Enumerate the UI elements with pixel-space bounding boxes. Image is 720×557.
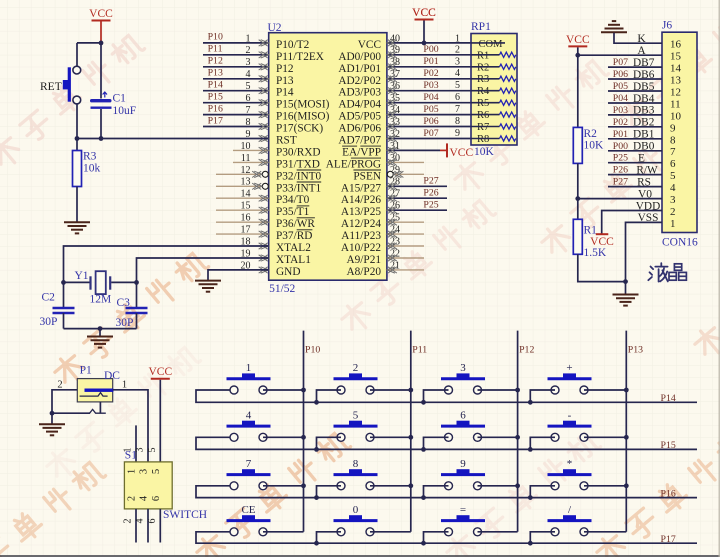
svg-text:10K: 10K xyxy=(584,140,605,152)
svg-text:DB4: DB4 xyxy=(633,93,655,105)
svg-text:2: 2 xyxy=(455,44,460,55)
svg-text:R2: R2 xyxy=(584,128,598,140)
svg-text:E: E xyxy=(638,153,645,165)
svg-text:P12: P12 xyxy=(519,345,534,356)
svg-text:P13: P13 xyxy=(628,345,643,356)
svg-text:+: + xyxy=(566,362,572,374)
svg-text:16: 16 xyxy=(670,39,682,51)
svg-text:AD4/P04: AD4/P04 xyxy=(338,99,381,111)
svg-text:2: 2 xyxy=(57,380,62,391)
svg-text:AD7/P07: AD7/P07 xyxy=(338,135,381,147)
svg-text:P31/TXD: P31/TXD xyxy=(276,158,320,170)
svg-text:R3: R3 xyxy=(477,74,489,85)
svg-text:A11/P23: A11/P23 xyxy=(341,230,381,242)
svg-text:A12/P24: A12/P24 xyxy=(341,218,382,230)
svg-text:R1: R1 xyxy=(477,50,489,61)
svg-text:P25: P25 xyxy=(423,200,438,211)
svg-text:C3: C3 xyxy=(117,297,131,309)
svg-text:4: 4 xyxy=(139,495,150,501)
svg-text:10k: 10k xyxy=(83,163,101,175)
svg-text:P37/RD: P37/RD xyxy=(276,230,312,242)
svg-text:P06: P06 xyxy=(423,116,438,127)
svg-text:XTAL1: XTAL1 xyxy=(276,254,311,266)
svg-text:C2: C2 xyxy=(42,292,56,304)
svg-text:3: 3 xyxy=(670,194,676,206)
svg-text:P16: P16 xyxy=(208,103,223,114)
svg-text:P26: P26 xyxy=(423,188,438,199)
svg-text:P17: P17 xyxy=(661,534,676,545)
svg-text:12M: 12M xyxy=(90,294,112,306)
svg-text:SWITCH: SWITCH xyxy=(163,509,207,521)
svg-text:-: - xyxy=(568,409,572,421)
svg-text:9: 9 xyxy=(670,122,676,134)
svg-text:P10/T2: P10/T2 xyxy=(276,39,310,51)
svg-text:9: 9 xyxy=(455,128,460,139)
svg-text:AD6/P06: AD6/P06 xyxy=(338,123,381,135)
svg-text:C1: C1 xyxy=(113,93,127,105)
svg-text:P04: P04 xyxy=(423,92,438,103)
svg-text:P26: P26 xyxy=(613,165,628,176)
svg-text:P27: P27 xyxy=(423,176,438,187)
svg-text:V0: V0 xyxy=(638,188,652,200)
svg-text:P30/RXD: P30/RXD xyxy=(276,146,321,158)
svg-text:5: 5 xyxy=(670,170,676,182)
svg-text:A: A xyxy=(637,45,646,57)
svg-text:1: 1 xyxy=(455,33,460,44)
svg-text:P01: P01 xyxy=(423,56,438,67)
svg-text:R5: R5 xyxy=(477,98,489,109)
svg-text:VCC: VCC xyxy=(450,147,474,159)
svg-text:AD5/P05: AD5/P05 xyxy=(338,111,381,123)
svg-text:P02: P02 xyxy=(423,68,438,79)
svg-text:4: 4 xyxy=(455,68,460,79)
svg-text:15: 15 xyxy=(670,51,682,63)
svg-text:1: 1 xyxy=(670,218,676,230)
svg-text:14: 14 xyxy=(670,63,682,75)
svg-text:1.5K: 1.5K xyxy=(584,247,607,259)
svg-text:=: = xyxy=(460,504,466,516)
svg-text:3: 3 xyxy=(460,362,466,374)
svg-text:VCC: VCC xyxy=(358,39,381,51)
svg-text:2: 2 xyxy=(670,206,676,218)
svg-text:6: 6 xyxy=(460,409,466,421)
svg-text:5: 5 xyxy=(147,448,158,453)
svg-text:8: 8 xyxy=(455,116,460,127)
svg-text:P07: P07 xyxy=(423,128,438,139)
svg-text:1: 1 xyxy=(246,362,252,374)
svg-text:P14: P14 xyxy=(276,87,294,99)
svg-text:DB6: DB6 xyxy=(633,69,655,81)
svg-text:P10: P10 xyxy=(305,345,320,356)
svg-text:4: 4 xyxy=(135,519,146,524)
svg-text:R8: R8 xyxy=(477,134,489,145)
svg-text:DB7: DB7 xyxy=(633,57,655,69)
svg-text:1: 1 xyxy=(122,380,127,391)
svg-text:1: 1 xyxy=(123,448,134,453)
svg-text:1: 1 xyxy=(127,469,138,474)
svg-text:2: 2 xyxy=(123,519,134,524)
svg-text:*: * xyxy=(567,458,573,470)
svg-text:R2: R2 xyxy=(477,62,489,73)
svg-text:PSEN: PSEN xyxy=(353,170,381,182)
svg-text:RST: RST xyxy=(276,135,297,147)
svg-text:7: 7 xyxy=(455,104,460,115)
svg-text:VCC: VCC xyxy=(89,8,113,20)
svg-text:VCC: VCC xyxy=(148,366,172,378)
svg-text:P11: P11 xyxy=(208,44,223,55)
svg-text:R1: R1 xyxy=(584,225,598,237)
svg-text:P16(MISO): P16(MISO) xyxy=(276,111,330,123)
svg-text:DB1: DB1 xyxy=(633,129,654,141)
svg-text:R6: R6 xyxy=(477,110,489,121)
svg-text:7: 7 xyxy=(246,458,252,470)
svg-text:P11/T2EX: P11/T2EX xyxy=(276,51,324,63)
svg-text:P1: P1 xyxy=(80,365,92,377)
svg-text:6: 6 xyxy=(151,496,162,501)
svg-text:VCC: VCC xyxy=(412,7,436,19)
svg-text:ALE/PROG: ALE/PROG xyxy=(326,158,381,170)
svg-text:2: 2 xyxy=(353,362,359,374)
svg-text:P12: P12 xyxy=(208,56,223,67)
svg-text:4: 4 xyxy=(670,182,676,194)
svg-text:P03: P03 xyxy=(423,80,438,91)
svg-text:9: 9 xyxy=(460,458,466,470)
svg-text:3: 3 xyxy=(135,448,146,453)
svg-text:P14: P14 xyxy=(661,393,676,404)
svg-text:P13: P13 xyxy=(276,75,294,87)
svg-text:7: 7 xyxy=(670,146,676,158)
svg-text:P04: P04 xyxy=(613,93,628,104)
svg-text:P13: P13 xyxy=(208,68,223,79)
svg-text:P00: P00 xyxy=(613,141,628,152)
svg-text:10K: 10K xyxy=(474,146,495,158)
svg-text:A13/P25: A13/P25 xyxy=(341,206,382,218)
svg-text:A8/P20: A8/P20 xyxy=(346,266,381,278)
svg-text:6: 6 xyxy=(670,158,676,170)
svg-text:AD0/P00: AD0/P00 xyxy=(338,51,381,63)
svg-text:10: 10 xyxy=(670,110,682,122)
svg-text:CE: CE xyxy=(241,504,255,516)
svg-text:K: K xyxy=(637,33,646,45)
svg-text:P06: P06 xyxy=(613,69,628,80)
svg-text:P11: P11 xyxy=(412,345,427,356)
svg-text:R7: R7 xyxy=(477,122,489,133)
svg-text:P12: P12 xyxy=(276,63,294,75)
svg-text:8: 8 xyxy=(353,458,359,470)
svg-text:13: 13 xyxy=(670,75,682,87)
svg-text:J6: J6 xyxy=(662,20,672,32)
svg-text:AD3/P03: AD3/P03 xyxy=(338,87,381,99)
svg-text:DB0: DB0 xyxy=(633,141,655,153)
svg-text:CON16: CON16 xyxy=(662,237,698,249)
svg-text:P10: P10 xyxy=(208,32,223,43)
svg-text:8: 8 xyxy=(670,134,676,146)
svg-text:2: 2 xyxy=(127,496,138,501)
svg-text:P07: P07 xyxy=(613,57,628,68)
svg-text:P01: P01 xyxy=(613,129,628,140)
svg-text:P16: P16 xyxy=(661,488,676,499)
svg-text:A15/P27: A15/P27 xyxy=(341,182,382,194)
svg-text:R/W: R/W xyxy=(636,164,658,176)
svg-text:0: 0 xyxy=(353,504,359,516)
svg-text:P25: P25 xyxy=(613,153,628,164)
svg-text:3: 3 xyxy=(139,469,150,474)
svg-text:DC: DC xyxy=(104,370,120,382)
svg-text:AD1/P01: AD1/P01 xyxy=(338,63,381,75)
svg-text:A9/P21: A9/P21 xyxy=(346,254,381,266)
svg-text:3: 3 xyxy=(455,56,460,67)
svg-text:RET: RET xyxy=(40,81,62,93)
svg-text:5: 5 xyxy=(455,80,460,91)
svg-text:11: 11 xyxy=(670,99,681,111)
svg-text:RP1: RP1 xyxy=(471,21,491,33)
svg-text:P34/T0: P34/T0 xyxy=(276,194,310,206)
svg-text:P14: P14 xyxy=(208,80,223,91)
svg-text:P02: P02 xyxy=(613,117,628,128)
svg-text:6: 6 xyxy=(147,519,158,524)
svg-text:DB5: DB5 xyxy=(633,81,655,93)
svg-text:4: 4 xyxy=(246,409,252,421)
svg-text:P15: P15 xyxy=(208,92,223,103)
svg-text:51/52: 51/52 xyxy=(269,283,295,295)
svg-text:VCC: VCC xyxy=(590,236,614,248)
svg-text:30P: 30P xyxy=(40,316,58,328)
svg-text:U2: U2 xyxy=(268,22,282,34)
svg-text:COM: COM xyxy=(479,39,504,50)
svg-text:Y1: Y1 xyxy=(75,270,89,282)
svg-text:P17: P17 xyxy=(208,115,223,126)
svg-text:P05: P05 xyxy=(423,104,438,115)
svg-text:R3: R3 xyxy=(83,151,97,163)
svg-text:P05: P05 xyxy=(613,81,628,92)
svg-text:P35/T1: P35/T1 xyxy=(276,206,309,218)
svg-text:P27: P27 xyxy=(613,177,628,188)
svg-text:P15: P15 xyxy=(661,440,676,451)
svg-text:VDD: VDD xyxy=(636,200,660,212)
svg-text:6: 6 xyxy=(455,92,460,103)
svg-text:P15(MOSI): P15(MOSI) xyxy=(276,99,330,111)
svg-text:12: 12 xyxy=(670,87,681,99)
svg-text:P17(SCK): P17(SCK) xyxy=(276,123,323,135)
svg-text:EA/VPP: EA/VPP xyxy=(342,146,381,158)
svg-text:DB3: DB3 xyxy=(633,105,655,117)
svg-text:10uF: 10uF xyxy=(113,105,137,117)
svg-text:R4: R4 xyxy=(477,86,490,97)
svg-text:5: 5 xyxy=(353,409,359,421)
svg-text:VCC: VCC xyxy=(566,34,590,46)
svg-text:RS: RS xyxy=(637,176,651,188)
svg-text:AD2/P02: AD2/P02 xyxy=(338,75,381,87)
svg-text:VSS: VSS xyxy=(638,212,659,224)
svg-text:A10/P22: A10/P22 xyxy=(341,242,382,254)
svg-text:A14/P26: A14/P26 xyxy=(341,194,382,206)
svg-text:XTAL2: XTAL2 xyxy=(276,242,311,254)
svg-text:30P: 30P xyxy=(116,317,134,329)
svg-text:5: 5 xyxy=(151,469,162,474)
svg-text:P36/WR: P36/WR xyxy=(276,218,315,230)
svg-text:P32/INT0: P32/INT0 xyxy=(276,170,322,182)
svg-text:GND: GND xyxy=(276,266,300,278)
svg-text:P00: P00 xyxy=(423,44,438,55)
svg-text:P03: P03 xyxy=(613,105,628,116)
svg-text:DB2: DB2 xyxy=(633,117,655,129)
svg-text:P33/INT1: P33/INT1 xyxy=(276,182,321,194)
